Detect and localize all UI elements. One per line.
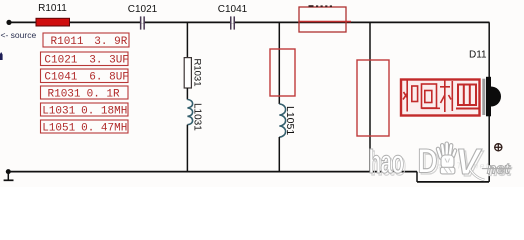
label D11	[469, 50, 487, 61]
svg-text:hao: hao	[369, 143, 404, 180]
wire: bottom bus	[8, 171, 417, 173]
decor: dark tick marks above box	[309, 5, 333, 7]
node: source terminal dot (left)	[6, 20, 11, 25]
table row 1: R1011 3.9R	[43, 33, 129, 48]
svg-text:R1031: R1031	[48, 89, 81, 101]
svg-text:0. 1R: 0. 1R	[87, 89, 120, 101]
wire: branch 1 vertical upper (node at x=187)	[186, 22, 188, 57]
annotation: red box around L1051 top	[270, 49, 295, 96]
annotation: red stamp box	[401, 80, 480, 116]
label C1021	[128, 4, 158, 15]
resistor R1011 (red filled body on top wire)	[36, 18, 70, 26]
wire: branch 3 vertical (node at x=370)	[369, 22, 371, 171]
stamp glyph 4 (min)	[456, 85, 479, 109]
diode D11 (black bar)	[486, 77, 491, 117]
diode D11 (gray bar)	[482, 79, 485, 115]
svg-text:0. 47MH: 0. 47MH	[81, 123, 127, 135]
capacitor C1021 (series plates on top wire)	[140, 16, 145, 29]
wire: branch 1 lower to bottom bus	[186, 125, 188, 172]
terminal: plus symbol (circled +)	[494, 143, 502, 151]
svg-text:R1011: R1011	[51, 36, 84, 48]
resistor R1031 (vertical box)	[184, 58, 191, 88]
label: <- source	[1, 30, 37, 40]
svg-text:L1051: L1051	[284, 106, 296, 135]
label R1031 (rotated)	[192, 59, 203, 87]
watermark: hand icon	[436, 142, 457, 174]
svg-text:V: V	[456, 141, 483, 182]
wire: branch 2 vertical (node at x=279)	[278, 22, 280, 104]
decor: blue blob left edge	[0, 52, 3, 60]
stamp glyph 1	[403, 81, 418, 112]
label L1031 (rotated)	[192, 103, 203, 131]
svg-text:0. 18MH: 0. 18MH	[81, 106, 127, 118]
annotation: red box on branch 3	[357, 60, 389, 136]
label C1041	[218, 4, 248, 15]
wire: bottom right segment	[417, 181, 489, 183]
wire: top bus from source dot to top-right corner	[9, 21, 490, 23]
wire: branch 1 between R1031 and L1031	[186, 88, 188, 100]
svg-text:L1051: L1051	[42, 123, 75, 135]
svg-text:R1031: R1031	[192, 59, 203, 87]
svg-text:R1011: R1011	[38, 3, 67, 14]
table row 5: L1031 0.18MH	[41, 103, 129, 118]
svg-text:C1021: C1021	[44, 55, 77, 67]
svg-text:3. 9R: 3. 9R	[94, 36, 127, 48]
svg-text:6. 8UF: 6. 8UF	[89, 72, 129, 84]
svg-text:D: D	[418, 142, 438, 180]
svg-text:C1041: C1041	[218, 4, 248, 15]
watermark: faint ghost text band	[430, 161, 490, 171]
stamp glyph 3	[440, 80, 452, 112]
inductor L1051 (coil)	[279, 104, 285, 137]
diode D11 (black half disc)	[491, 87, 501, 107]
label L1051 (rotated)	[284, 106, 296, 135]
wire: branch 2 lower to bottom bus	[278, 137, 280, 172]
svg-text:C1021: C1021	[128, 4, 158, 15]
svg-text:L1031: L1031	[42, 106, 75, 118]
inductor L1031 (coil)	[187, 100, 192, 125]
wire: right vertical from top corner to bottom-right	[488, 22, 490, 182]
terminal: bottom-left stub and bar	[4, 172, 14, 181]
table row 3: C1041 6.8UF	[41, 69, 129, 84]
watermark: shadow layer	[370, 143, 512, 184]
table row 4: R1031 0.1R	[41, 86, 129, 101]
svg-text:C1041: C1041	[44, 72, 77, 84]
watermark: haoD(hand)V.net main	[369, 141, 512, 182]
svg-text:<- source: <- source	[1, 30, 37, 40]
svg-text:D11: D11	[469, 50, 487, 61]
svg-text:L1031: L1031	[192, 103, 203, 131]
capacitor C1041 (series plates on top wire)	[230, 16, 235, 29]
annotation: red box on top wire (transformer highlight)	[299, 7, 351, 32]
label R1011	[38, 3, 67, 14]
wire: bottom step down	[416, 172, 418, 182]
stamp glyph 2 (hui)	[422, 84, 441, 108]
table row 6: L1051 0.47MH	[41, 120, 129, 135]
table row 2: C1021 3.3UF	[41, 52, 129, 67]
node: bottom-left terminal dot	[6, 169, 11, 174]
svg-text:3. 3UF: 3. 3UF	[89, 55, 129, 67]
